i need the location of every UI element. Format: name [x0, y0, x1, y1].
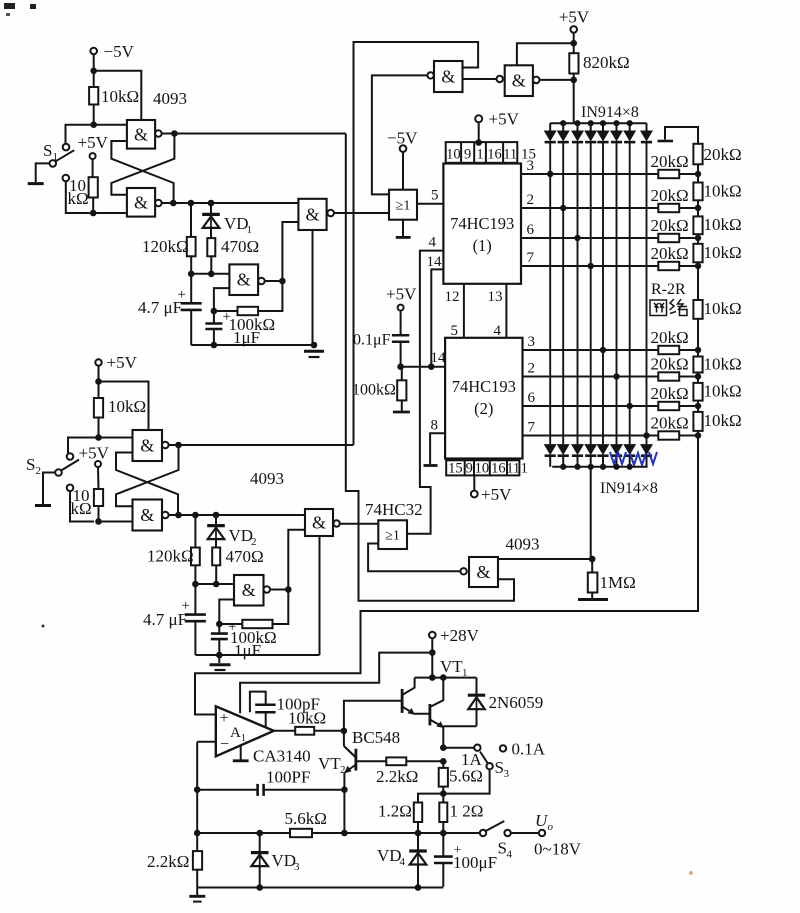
wire	[93, 54, 95, 71]
resistor 120k (S1)	[187, 237, 196, 256]
wire to ground	[36, 163, 50, 182]
wire + node A	[162, 133, 175, 135]
output bubble G1b	[155, 200, 162, 207]
ground (S1 RC)	[304, 350, 324, 353]
resistor 5.6k	[290, 829, 312, 837]
svg-text:120kΩ: 120kΩ	[147, 547, 194, 566]
wire to G3a input	[99, 437, 133, 439]
diode array IN914 bottom row	[545, 445, 556, 455]
ground (S2 RC)	[210, 663, 231, 666]
svg-text:&: &	[237, 270, 251, 290]
svg-text:470Ω: 470Ω	[226, 547, 264, 566]
wire to gate G1a top input	[94, 71, 142, 120]
U1 output pin 3 row wire	[521, 173, 658, 175]
svg-text:20kΩ: 20kΩ	[704, 145, 742, 164]
nand gate G3d (4093)	[305, 509, 333, 536]
svg-text:3: 3	[527, 158, 535, 174]
diode VD1	[210, 203, 212, 213]
node VT1 emitter	[440, 744, 447, 751]
wire to G1a input	[94, 124, 127, 126]
VT1 collector bus	[415, 677, 477, 679]
resistor 470R (S2)	[212, 548, 220, 566]
ground (bottom)	[196, 888, 198, 896]
svg-text:3: 3	[528, 334, 536, 350]
svg-text:VT: VT	[318, 754, 341, 773]
wire U3 output to pin 5	[417, 203, 443, 205]
svg-text:IN914×8: IN914×8	[581, 104, 639, 121]
scan speck marks	[4, 3, 15, 9]
wire to G3a top	[99, 382, 149, 431]
svg-text:VD: VD	[377, 846, 402, 865]
wire to VT1 base	[344, 701, 402, 731]
ground (1M)	[578, 598, 608, 601]
resistor 10k (S1 lower)	[89, 177, 98, 197]
resistor 5.6R	[442, 761, 444, 768]
svg-text:0.1μF: 0.1μF	[353, 332, 391, 349]
svg-text:20kΩ: 20kΩ	[651, 328, 689, 347]
svg-text:4: 4	[400, 856, 406, 868]
svg-text:20kΩ: 20kΩ	[651, 152, 689, 171]
svg-text:10kΩ: 10kΩ	[704, 382, 742, 401]
cross-coupling wire A->G1b	[111, 134, 174, 195]
ground (U3)	[402, 220, 404, 237]
wire G2b top to +5V node	[517, 43, 574, 65]
U2 output pin 3 row wire	[523, 349, 659, 351]
bottom diode bus	[552, 466, 647, 468]
node	[279, 278, 286, 285]
svg-text:6: 6	[527, 222, 535, 238]
svg-text:20kΩ: 20kΩ	[651, 384, 689, 403]
ground (clock RC)	[393, 411, 410, 414]
cross-coupling G3a<-B2	[116, 453, 178, 516]
top diode bus	[550, 122, 646, 124]
svg-text:13: 13	[488, 289, 503, 305]
svg-text:100kΩ: 100kΩ	[352, 382, 396, 399]
wire to OR gate U3 input	[334, 212, 389, 214]
svg-text:+5V: +5V	[481, 485, 512, 504]
nand gate G1c RC oscillator (4093)	[229, 264, 258, 295]
node	[95, 434, 102, 441]
U2 output pin 6 row wire	[523, 405, 659, 407]
wire latch out to long vertical	[179, 444, 354, 446]
svg-text:4093: 4093	[506, 535, 540, 554]
svg-text:2: 2	[528, 361, 536, 377]
wire to 74HC32 input	[340, 523, 379, 525]
svg-text:10kΩ: 10kΩ	[704, 215, 742, 234]
svg-text:VD: VD	[224, 214, 249, 233]
resistor 470R (S1)	[207, 238, 215, 256]
input bubble G2b	[497, 76, 503, 82]
svg-text:+: +	[228, 619, 236, 635]
resistor 20k (ladder row)	[658, 372, 679, 380]
resistor 100k (clock RC)	[401, 367, 403, 381]
node	[90, 210, 97, 217]
svg-text:20kΩ: 20kΩ	[651, 355, 689, 374]
svg-text:14: 14	[431, 350, 447, 366]
output bubble G1d	[327, 210, 334, 217]
clock node wire into U2 pin 14	[401, 366, 446, 368]
svg-text:≥1: ≥1	[396, 199, 411, 214]
wire to ground	[43, 473, 55, 505]
svg-text:9: 9	[466, 461, 473, 477]
svg-text:&: &	[476, 562, 490, 582]
pin 12 wire	[463, 284, 465, 338]
diode 2N6059	[476, 678, 478, 694]
capacitor 4.7uF (S1)	[190, 274, 192, 303]
svg-text:7: 7	[527, 250, 535, 266]
cross-coupling wire G1a<-out B	[111, 141, 173, 203]
svg-text:VD: VD	[229, 526, 254, 545]
power terminal +5V (S2)	[95, 359, 101, 365]
svg-text:1: 1	[521, 461, 529, 477]
svg-text:1.2Ω: 1.2Ω	[378, 802, 412, 821]
diode VD3	[259, 833, 261, 851]
resistor 20k (ladder top vertical)	[693, 144, 702, 165]
capacitor 1uF (S1)	[205, 322, 222, 325]
wire to 820k node	[540, 79, 574, 81]
svg-text:R-2R: R-2R	[651, 281, 686, 298]
wire bus to G5 output node	[590, 467, 592, 559]
output bubble G3b	[162, 512, 169, 519]
resistor 20k (ladder row)	[658, 234, 679, 242]
pin 13 wire	[505, 284, 507, 338]
svg-text:1: 1	[247, 224, 253, 236]
switch S3 with 1A / 0.1A taps	[474, 745, 480, 751]
IC U1 74HC193 (1) body	[443, 164, 521, 284]
nand gate G1a (4093)	[127, 120, 155, 149]
ground (op-amp)	[240, 746, 242, 760]
svg-text:1 2Ω: 1 2Ω	[450, 802, 484, 821]
resistor 2.2k (VT2)	[356, 760, 386, 762]
ladder output wire to op-amp +	[195, 436, 698, 715]
svg-text:8: 8	[431, 418, 439, 434]
svg-text:10kΩ: 10kΩ	[101, 87, 139, 106]
output bubble G3c	[264, 586, 271, 593]
svg-text:−5V: −5V	[104, 42, 135, 61]
node	[440, 758, 447, 765]
nand gate G2b (4093 top)	[505, 65, 533, 96]
U1 output pin 6 row wire	[521, 237, 658, 239]
ground (S1)	[28, 182, 44, 185]
switch S1 bottom throw	[63, 175, 70, 182]
svg-text:4.7 μF: 4.7 μF	[138, 298, 182, 317]
svg-text:(2): (2)	[474, 399, 493, 418]
output bubble G3d	[333, 520, 339, 526]
nand gate G5 (4093)	[469, 557, 498, 587]
svg-text:74HC32: 74HC32	[365, 500, 423, 519]
svg-text:+: +	[220, 710, 229, 727]
svg-text:≥1: ≥1	[385, 529, 400, 544]
node	[429, 649, 436, 656]
input bubble G5	[460, 568, 466, 574]
svg-text:6: 6	[528, 390, 536, 406]
wire G3d bottom to rail	[319, 536, 321, 655]
svg-text:11: 11	[503, 147, 517, 163]
power terminal -5V (S1 section)	[90, 48, 97, 55]
svg-text:10kΩ: 10kΩ	[704, 182, 742, 201]
svg-text:16: 16	[491, 461, 506, 477]
wire to switch S2	[68, 438, 99, 454]
switch S4 and output Uo	[480, 830, 486, 836]
nand gate G2a (4093 top)	[434, 61, 463, 92]
svg-text:+5V: +5V	[489, 110, 520, 129]
svg-text:&: &	[134, 192, 148, 212]
svg-text:16: 16	[487, 147, 502, 163]
wire G1c pin2 to 1uF	[214, 288, 230, 322]
svg-text:15: 15	[448, 461, 463, 477]
wire U4 input2 loop to nand input bubble	[368, 544, 460, 572]
capacitor 1uF (S2)	[211, 632, 228, 635]
transistor VT1 darlington Qb	[428, 704, 431, 725]
op-amp A1 CA3140	[216, 706, 274, 756]
svg-text:+5V: +5V	[78, 133, 109, 152]
resistor 20k (ladder row)	[658, 170, 679, 178]
svg-text:1: 1	[241, 733, 246, 744]
wire down to 100k (S2)	[273, 590, 289, 625]
svg-text:+5V: +5V	[79, 444, 110, 463]
capacitor 100pF	[250, 692, 266, 713]
svg-text:&: &	[512, 71, 526, 91]
resistor 20k (ladder row)	[658, 262, 679, 270]
switch S1	[63, 144, 70, 151]
svg-text:12: 12	[445, 289, 460, 305]
switch S2 bottom throw	[67, 485, 74, 492]
svg-text:+5V: +5V	[386, 285, 417, 304]
svg-text:100PF: 100PF	[266, 768, 310, 787]
svg-text:10kΩ: 10kΩ	[704, 299, 742, 318]
svg-text:10kΩ: 10kΩ	[704, 355, 742, 374]
capacitor 100uF	[442, 833, 444, 856]
or gate U3 (>=1)	[389, 190, 417, 220]
svg-text:+5V: +5V	[559, 8, 590, 27]
cross-coupling A2->G3b	[116, 445, 179, 506]
svg-text:4093: 4093	[250, 469, 284, 488]
svg-text:14: 14	[427, 254, 443, 270]
wire to switch S1 top throw	[66, 125, 94, 144]
U1 output pin 2 row wire	[521, 207, 658, 209]
node	[440, 790, 447, 797]
bottom rail (S1 RC)	[191, 344, 314, 346]
blue scan artifact marks	[610, 452, 657, 465]
resistor 1.2R left	[418, 794, 443, 803]
resistor 820k	[573, 43, 575, 53]
svg-text:VD: VD	[272, 851, 297, 870]
resistor 100k feedback (S1)	[238, 307, 259, 315]
svg-text:3: 3	[504, 768, 510, 780]
wire down to 100k	[258, 281, 282, 311]
svg-text:820kΩ: 820kΩ	[583, 53, 630, 72]
svg-text:1: 1	[476, 147, 483, 163]
svg-text:20kΩ: 20kΩ	[651, 186, 689, 205]
wire to S3 1A tap	[443, 747, 474, 749]
resistor 2.2k (feedback)	[193, 851, 202, 870]
nand gate G3c RC oscillator (4093)	[234, 575, 264, 606]
resistor 100k feedback (S2)	[242, 620, 272, 628]
svg-text:470Ω: 470Ω	[221, 237, 259, 256]
input bubble G2a	[427, 72, 433, 78]
svg-text:1μF: 1μF	[234, 641, 261, 660]
svg-text:2: 2	[527, 192, 535, 208]
output bubble G1c	[258, 278, 265, 285]
resistor 10k (ladder)	[697, 377, 699, 383]
wire G5 output to 1M node	[498, 558, 592, 560]
wire G2a out to G2b	[463, 78, 497, 80]
svg-text:4.7 μF: 4.7 μF	[143, 610, 187, 629]
wire feedback up to G3d	[288, 530, 305, 590]
svg-text:10kΩ: 10kΩ	[108, 397, 146, 416]
diode VD2	[215, 515, 217, 524]
wire pin14 down to clock node	[431, 269, 443, 366]
resistor 10k (S1 pull to -5V)	[93, 71, 95, 87]
resistor 10k (ladder)	[697, 174, 699, 183]
svg-text:3: 3	[294, 861, 300, 873]
resistor 120k (S2)	[191, 548, 200, 566]
svg-text:2.2kΩ: 2.2kΩ	[376, 767, 418, 786]
svg-text:10kΩ: 10kΩ	[704, 243, 742, 262]
node	[570, 40, 577, 47]
resistor 10k (ladder)	[697, 208, 699, 216]
resistor 10k (S2 lower)	[94, 489, 103, 506]
resistor 10k (ladder)	[697, 350, 699, 357]
node op-amp drive	[341, 728, 348, 735]
bottom rail (S2 RC)	[195, 654, 319, 656]
matrix column wires	[549, 143, 551, 445]
svg-text:120kΩ: 120kΩ	[142, 237, 189, 256]
output bubble G3a	[162, 442, 169, 449]
U1 output pin 7 row wire	[521, 265, 658, 267]
wire G1d bottom to rail	[312, 230, 314, 345]
svg-text:74HC193: 74HC193	[450, 214, 514, 233]
resistor 10k (ladder)	[697, 406, 699, 412]
transistor VT1 darlington Qa	[401, 689, 404, 713]
svg-text:5: 5	[431, 188, 439, 204]
lower rail	[197, 887, 443, 889]
U2 bottom pin boxes 15 9 10 16 11	[446, 460, 519, 475]
svg-text:A: A	[230, 725, 241, 741]
svg-text:kΩ: kΩ	[68, 189, 89, 208]
wire to RC gate input	[191, 273, 229, 275]
svg-text:9: 9	[464, 147, 471, 163]
svg-text:11: 11	[506, 461, 520, 477]
svg-text:10kΩ: 10kΩ	[704, 411, 742, 430]
wire output + resistor 10k	[274, 730, 295, 732]
power terminal +5V (U2)	[473, 475, 475, 490]
wire: S1 latch out to long vertical	[174, 133, 345, 135]
node: -5V junction	[90, 68, 97, 75]
node	[90, 121, 97, 128]
U1 top pin boxes 10 9 1 16 11	[446, 142, 518, 163]
svg-text:S: S	[43, 141, 52, 160]
svg-text:10kΩ: 10kΩ	[288, 709, 326, 728]
svg-text:4: 4	[429, 235, 437, 251]
capacitor 4.7uF (S2)	[194, 584, 196, 614]
wire pin4 to 74HC32 output	[407, 251, 443, 534]
svg-text:IN914×8: IN914×8	[600, 480, 658, 497]
svg-text:&: &	[134, 124, 148, 144]
svg-text:+28V: +28V	[440, 626, 480, 645]
svg-text:−: −	[220, 736, 229, 753]
nand gate G3b (4093)	[133, 500, 163, 531]
svg-text:4: 4	[507, 849, 513, 861]
node	[95, 378, 102, 385]
wire G3c pin2 to 1uF (S2)	[219, 600, 234, 633]
svg-text:2.2kΩ: 2.2kΩ	[147, 852, 189, 871]
op-amp inverting input wire	[197, 741, 216, 743]
svg-text:2: 2	[36, 465, 42, 477]
svg-text:20kΩ: 20kΩ	[651, 244, 689, 263]
diode VD4	[417, 833, 419, 850]
svg-text:5.6kΩ: 5.6kΩ	[285, 809, 327, 828]
nand gate G1d (4093)	[298, 199, 326, 230]
resistor 1.2R right	[442, 794, 444, 803]
label wangluo (network)	[650, 299, 687, 316]
U2 output pin 2 row wire	[523, 376, 659, 378]
wire down to diode bus	[573, 80, 575, 123]
capacitor 100PF	[194, 786, 201, 793]
wire to comp pin	[240, 653, 432, 714]
wire: S2 latch out up and over to gate G2a	[354, 42, 479, 445]
svg-text:10: 10	[475, 461, 490, 477]
svg-text:20kΩ: 20kΩ	[651, 414, 689, 433]
resistor 20k (ladder row)	[658, 402, 679, 410]
nand gate G1b (4093)	[127, 188, 155, 217]
node A2	[175, 442, 182, 449]
node pair under VD2	[192, 581, 199, 588]
svg-text:(1): (1)	[473, 236, 492, 255]
svg-text:&: &	[140, 505, 154, 525]
svg-text:5.6Ω: 5.6Ω	[449, 767, 483, 786]
nand gate G3a (4093)	[133, 430, 163, 461]
switch S2	[67, 453, 74, 460]
resistor 20k (ladder row)	[658, 431, 679, 439]
wire	[66, 181, 90, 213]
capacitor 0.1uF	[392, 334, 409, 337]
IC U2 74HC193 (2) body	[445, 338, 522, 459]
svg-text:100μF: 100μF	[453, 853, 497, 872]
svg-text:BC548: BC548	[352, 728, 400, 747]
svg-text:&: &	[312, 513, 326, 533]
resistor 20k (ladder row)	[658, 204, 679, 212]
svg-text:&: &	[441, 67, 455, 87]
power terminal +28V	[429, 632, 436, 639]
diode array IN914 top row	[549, 123, 551, 131]
mid rail	[197, 832, 480, 834]
svg-text:CA3140: CA3140	[253, 747, 311, 766]
power terminal +5V (U1)	[475, 115, 482, 122]
node pair under VD1	[188, 271, 195, 278]
ground (S2)	[35, 504, 51, 507]
U2 output pin 7 row wire	[523, 435, 659, 437]
svg-text:&: &	[305, 204, 319, 224]
wire bubble to long vertical to U3	[372, 75, 428, 194]
svg-text:1MΩ: 1MΩ	[600, 573, 636, 592]
svg-text:10: 10	[446, 147, 461, 163]
svg-text:74HC193: 74HC193	[452, 377, 516, 396]
svg-text:0.1A: 0.1A	[512, 740, 546, 759]
resistor 10k (S2 upper)	[98, 382, 100, 399]
wire G1b output rail	[162, 202, 299, 204]
svg-text:o: o	[548, 821, 554, 833]
wire feedback up to G1d input	[282, 222, 298, 281]
wire G5 input2 from S1 latch (long route)	[346, 134, 514, 601]
svg-text:S: S	[26, 455, 35, 474]
resistor 10k (ladder)	[697, 266, 699, 300]
resistor 20k (ladder row)	[658, 346, 679, 354]
svg-text:VT: VT	[440, 657, 463, 676]
output bubble G2b	[533, 77, 540, 84]
svg-text:5: 5	[451, 323, 459, 339]
svg-text:1: 1	[462, 667, 468, 679]
